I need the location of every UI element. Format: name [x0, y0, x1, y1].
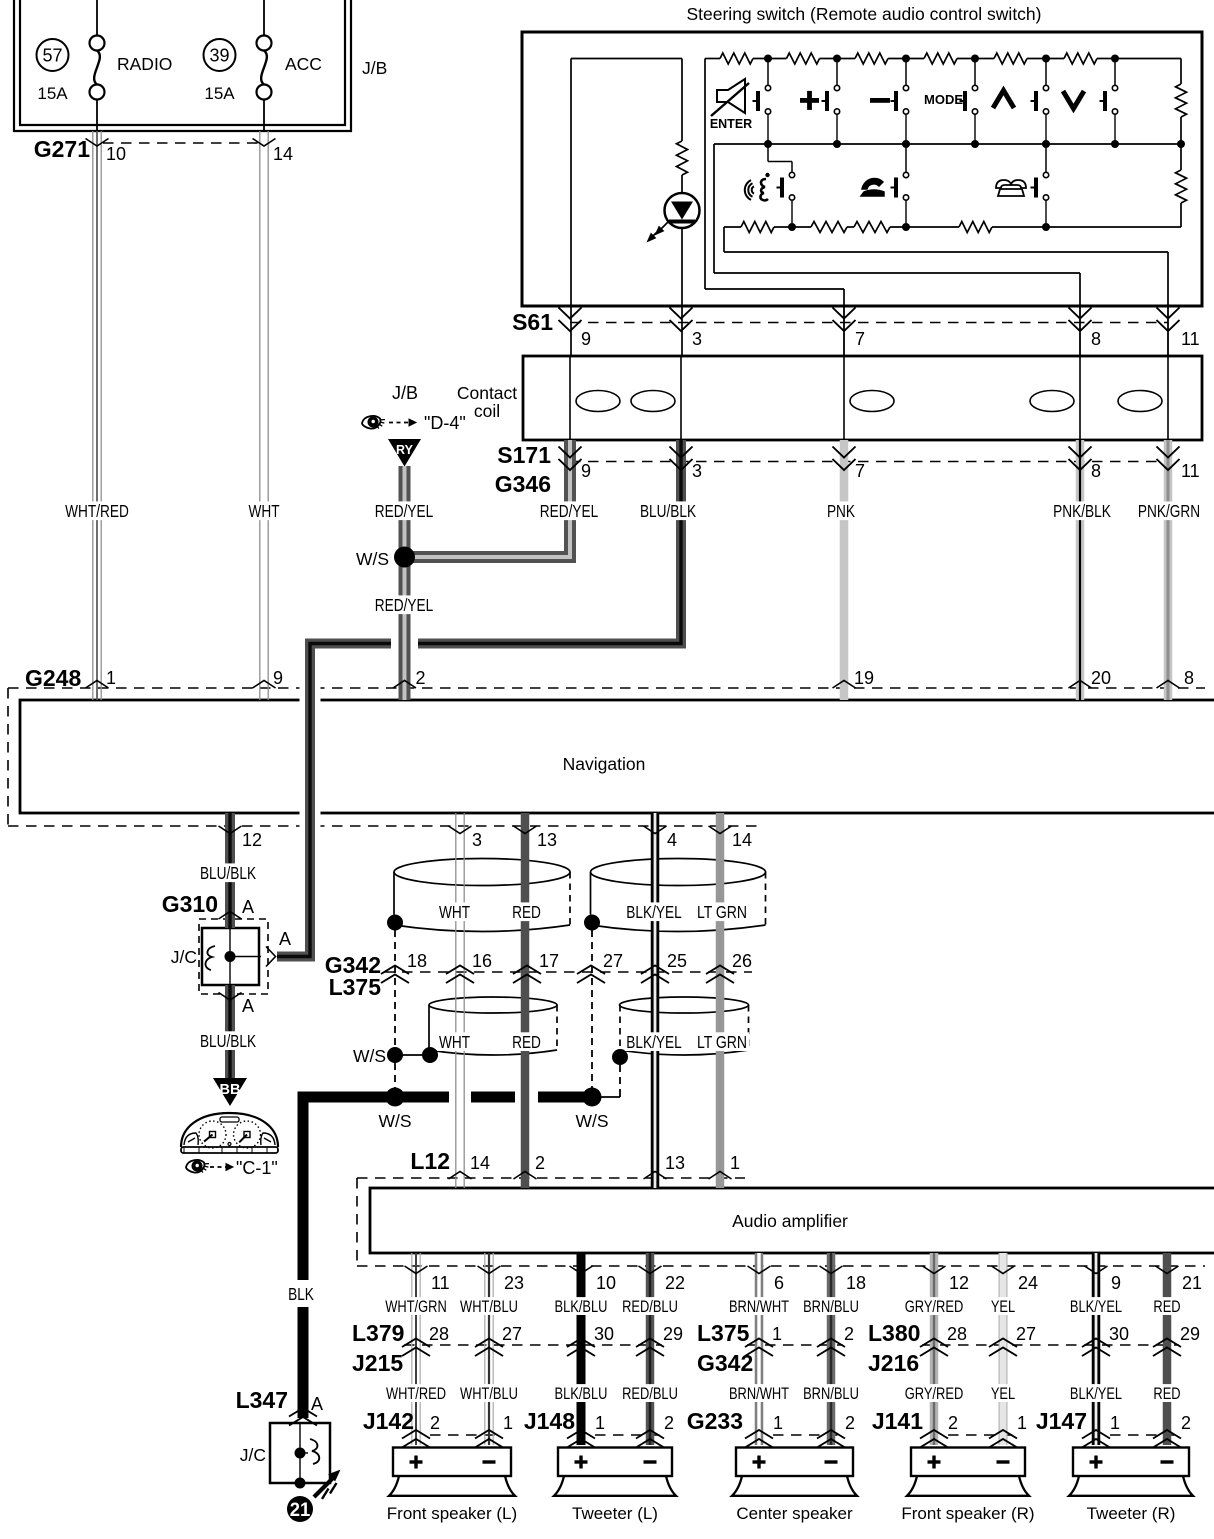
svg-text:13: 13: [537, 830, 557, 850]
svg-text:RED: RED: [512, 1032, 541, 1052]
svg-text:YEL: YEL: [991, 1298, 1015, 1316]
svg-text:BLK/BLU: BLK/BLU: [555, 1298, 608, 1316]
svg-text:BLU/BLK: BLU/BLK: [200, 1031, 256, 1051]
svg-text:21: 21: [290, 1500, 311, 1521]
svg-text:S61: S61: [512, 309, 553, 335]
svg-text:RED/YEL: RED/YEL: [375, 501, 434, 521]
svg-text:Front speaker (L): Front speaker (L): [387, 1504, 517, 1523]
svg-text:Tweeter (L): Tweeter (L): [572, 1504, 658, 1523]
svg-text:RY: RY: [396, 443, 414, 457]
svg-text:8: 8: [1091, 461, 1101, 481]
svg-text:4: 4: [667, 830, 677, 850]
svg-text:11: 11: [431, 1273, 450, 1293]
svg-text:PNK: PNK: [827, 501, 855, 521]
svg-text:MODE: MODE: [924, 92, 963, 107]
svg-text:6: 6: [774, 1273, 784, 1293]
svg-text:2: 2: [416, 668, 426, 688]
svg-text:S171: S171: [497, 442, 551, 468]
svg-text:A: A: [242, 996, 254, 1016]
svg-text:A: A: [242, 897, 254, 917]
svg-text:Tweeter (R): Tweeter (R): [1087, 1504, 1176, 1523]
svg-text:1: 1: [595, 1413, 605, 1433]
svg-text:G271: G271: [34, 136, 90, 162]
svg-text:BRN/BLU: BRN/BLU: [803, 1385, 859, 1403]
svg-text:7: 7: [855, 329, 865, 349]
svg-text:57: 57: [42, 46, 62, 66]
svg-text:WHT/BLU: WHT/BLU: [460, 1298, 518, 1316]
svg-text:10: 10: [106, 144, 126, 164]
svg-text:ACC: ACC: [285, 54, 322, 74]
svg-text:WHT: WHT: [248, 501, 279, 521]
svg-text:15A: 15A: [37, 84, 68, 103]
svg-text:G233: G233: [687, 1408, 743, 1434]
svg-text:1: 1: [730, 1153, 740, 1173]
svg-text:12: 12: [949, 1273, 969, 1293]
svg-text:WHT/BLU: WHT/BLU: [460, 1385, 518, 1403]
svg-text:9: 9: [581, 329, 591, 349]
svg-text:17: 17: [539, 951, 559, 971]
svg-text:L347: L347: [236, 1387, 288, 1413]
svg-text:BLK/BLU: BLK/BLU: [555, 1385, 608, 1403]
svg-text:25: 25: [667, 951, 687, 971]
svg-text:Front speaker (R): Front speaker (R): [901, 1504, 1034, 1523]
svg-text:3: 3: [472, 830, 482, 850]
svg-text:11: 11: [1181, 461, 1200, 481]
svg-text:RED: RED: [1153, 1298, 1180, 1316]
svg-text:1: 1: [106, 668, 116, 688]
svg-text:30: 30: [1109, 1324, 1129, 1344]
svg-text:RED/BLU: RED/BLU: [622, 1385, 678, 1403]
svg-text:J/B: J/B: [392, 383, 418, 403]
svg-text:G342: G342: [697, 1350, 753, 1376]
svg-text:YEL: YEL: [991, 1385, 1015, 1403]
svg-text:Contact: Contact: [457, 383, 517, 403]
svg-text:LT GRN: LT GRN: [697, 1032, 747, 1052]
svg-text:BLK: BLK: [288, 1284, 314, 1304]
svg-text:BLK/YEL: BLK/YEL: [1070, 1385, 1122, 1403]
svg-text:BLK/YEL: BLK/YEL: [626, 1032, 682, 1052]
svg-text:20: 20: [1091, 668, 1111, 688]
svg-text:BLK/YEL: BLK/YEL: [626, 902, 682, 922]
svg-text:GRY/RED: GRY/RED: [905, 1385, 964, 1403]
svg-text:J/C: J/C: [171, 947, 197, 967]
svg-text:7: 7: [855, 461, 865, 481]
svg-text:Navigation: Navigation: [563, 754, 646, 774]
svg-text:L375: L375: [329, 974, 382, 1000]
svg-text:1: 1: [1017, 1413, 1027, 1433]
svg-text:J142: J142: [363, 1408, 414, 1434]
svg-text:29: 29: [663, 1324, 683, 1344]
svg-text:11: 11: [1181, 329, 1200, 349]
svg-text:W/S: W/S: [356, 549, 389, 569]
svg-text:18: 18: [407, 951, 427, 971]
svg-text:BB: BB: [220, 1082, 241, 1098]
svg-text:PNK/BLK: PNK/BLK: [1053, 501, 1111, 521]
svg-text:9: 9: [581, 461, 591, 481]
svg-text:8: 8: [1091, 329, 1101, 349]
svg-text:30: 30: [594, 1324, 614, 1344]
svg-text:GRY/RED: GRY/RED: [905, 1298, 964, 1316]
svg-text:A: A: [311, 1394, 323, 1414]
svg-text:J148: J148: [524, 1408, 575, 1434]
svg-text:RED/BLU: RED/BLU: [622, 1298, 678, 1316]
svg-text:3: 3: [692, 461, 702, 481]
svg-text:27: 27: [603, 951, 623, 971]
svg-text:3: 3: [692, 329, 702, 349]
svg-text:A: A: [279, 929, 291, 949]
svg-text:WHT/RED: WHT/RED: [65, 501, 129, 521]
svg-text:G248: G248: [25, 665, 81, 691]
svg-text:2: 2: [844, 1324, 854, 1344]
svg-text:10: 10: [596, 1273, 616, 1293]
svg-text:24: 24: [1018, 1273, 1038, 1293]
svg-text:18: 18: [846, 1273, 866, 1293]
svg-text:14: 14: [470, 1153, 490, 1173]
svg-text:2: 2: [845, 1413, 855, 1433]
svg-text:WHT/GRN: WHT/GRN: [385, 1298, 447, 1316]
svg-text:W/S: W/S: [378, 1111, 411, 1131]
svg-text:12: 12: [242, 830, 262, 850]
svg-text:J216: J216: [868, 1350, 919, 1376]
svg-text:J141: J141: [872, 1408, 923, 1434]
svg-text:"C-1": "C-1": [236, 1158, 278, 1178]
svg-text:1: 1: [772, 1324, 782, 1344]
svg-text:WHT: WHT: [439, 1032, 470, 1052]
svg-text:BRN/BLU: BRN/BLU: [803, 1298, 859, 1316]
svg-text:coil: coil: [474, 401, 500, 421]
svg-text:8: 8: [1184, 668, 1194, 688]
svg-text:1: 1: [1110, 1413, 1120, 1433]
svg-text:2: 2: [430, 1413, 440, 1433]
svg-text:9: 9: [1111, 1273, 1121, 1293]
svg-text:2: 2: [535, 1153, 545, 1173]
svg-text:WHT: WHT: [439, 902, 470, 922]
svg-text:L375: L375: [697, 1320, 750, 1346]
svg-text:1: 1: [503, 1413, 513, 1433]
svg-text:21: 21: [1182, 1273, 1202, 1293]
svg-text:27: 27: [502, 1324, 522, 1344]
svg-text:29: 29: [1180, 1324, 1200, 1344]
svg-text:BLU/BLK: BLU/BLK: [640, 501, 696, 521]
svg-text:BRN/WHT: BRN/WHT: [729, 1385, 789, 1403]
svg-text:J/B: J/B: [362, 58, 387, 78]
svg-text:39: 39: [209, 46, 229, 66]
svg-text:14: 14: [732, 830, 752, 850]
svg-text:RED: RED: [1153, 1385, 1180, 1403]
svg-text:BLU/BLK: BLU/BLK: [200, 863, 256, 883]
svg-text:RADIO: RADIO: [117, 54, 172, 74]
svg-text:J/C: J/C: [240, 1445, 266, 1465]
svg-text:WHT/RED: WHT/RED: [386, 1385, 446, 1403]
svg-text:26: 26: [732, 951, 752, 971]
svg-text:2: 2: [948, 1413, 958, 1433]
svg-text:27: 27: [1016, 1324, 1036, 1344]
svg-text:BLK/YEL: BLK/YEL: [1070, 1298, 1122, 1316]
svg-text:L12: L12: [410, 1148, 450, 1174]
svg-text:G310: G310: [162, 891, 218, 917]
svg-text:28: 28: [947, 1324, 967, 1344]
svg-text:W/S: W/S: [353, 1046, 386, 1066]
svg-text:"D-4": "D-4": [424, 413, 466, 433]
svg-text:13: 13: [665, 1153, 685, 1173]
svg-text:J215: J215: [352, 1350, 403, 1376]
svg-text:RED: RED: [512, 902, 541, 922]
svg-text:23: 23: [504, 1273, 524, 1293]
svg-text:22: 22: [665, 1273, 685, 1293]
svg-text:9: 9: [273, 668, 283, 688]
svg-text:W/S: W/S: [575, 1111, 608, 1131]
svg-text:19: 19: [854, 668, 874, 688]
svg-text:Center speaker: Center speaker: [736, 1504, 853, 1523]
svg-text:2: 2: [664, 1413, 674, 1433]
svg-text:L380: L380: [868, 1320, 920, 1346]
svg-text:2: 2: [1181, 1413, 1191, 1433]
svg-text:BRN/WHT: BRN/WHT: [729, 1298, 789, 1316]
svg-text:28: 28: [429, 1324, 449, 1344]
svg-text:RED/YEL: RED/YEL: [375, 595, 434, 615]
svg-text:14: 14: [273, 144, 293, 164]
svg-text:16: 16: [472, 951, 492, 971]
svg-text:J147: J147: [1036, 1408, 1087, 1434]
svg-text:RED/YEL: RED/YEL: [540, 501, 599, 521]
svg-text:G346: G346: [495, 471, 551, 497]
svg-text:PNK/GRN: PNK/GRN: [1138, 501, 1200, 521]
svg-text:Audio amplifier: Audio amplifier: [732, 1211, 848, 1231]
svg-text:1: 1: [773, 1413, 783, 1433]
svg-text:15A: 15A: [204, 84, 235, 103]
svg-text:Steering switch (Remote audio: Steering switch (Remote audio control sw…: [686, 4, 1041, 24]
svg-text:L379: L379: [352, 1320, 404, 1346]
svg-text:ENTER: ENTER: [710, 117, 752, 131]
svg-text:LT GRN: LT GRN: [697, 902, 747, 922]
